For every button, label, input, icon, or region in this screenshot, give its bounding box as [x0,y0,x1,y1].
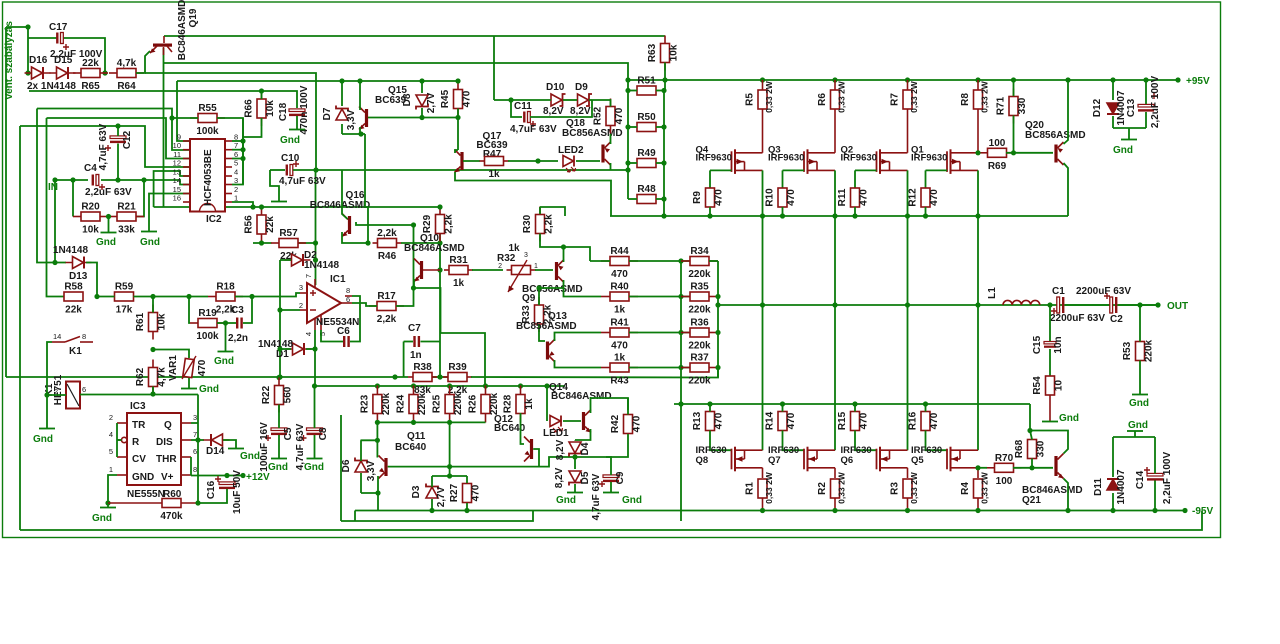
relay K1 HE751 [66,382,80,409]
svg-text:220k: 220k [688,376,711,387]
junction Q1 drain bus [975,213,980,218]
wire D3 R27 row [432,475,467,477]
resistor R20 [73,202,108,236]
wire Q21 emitter [1064,479,1069,511]
svg-text:R18: R18 [216,282,235,293]
wire D14 right gnd [223,440,236,448]
svg-text:Gnd: Gnd [140,237,160,248]
svg-text:D11: D11 [1093,478,1104,496]
svg-text:D14: D14 [206,446,225,457]
svg-text:470: 470 [786,412,797,429]
junction C11 top [508,97,513,102]
svg-text:R55: R55 [198,103,217,114]
junction R63 bus [662,77,667,82]
wire R68 bottom [1031,459,1033,468]
resistor R41 [601,318,638,352]
svg-text:R28: R28 [503,394,514,413]
diode D13 1N4148 [66,257,92,269]
wire C7 left [404,341,413,343]
svg-text:Q9: Q9 [522,293,536,304]
resistor R52 [593,99,626,134]
junction out bus 1 [832,302,837,307]
wire R63 to bus [664,63,666,91]
wire C18 bottom [296,116,298,129]
mosfet Q3 IRF9630 [804,149,835,174]
resistor R2 0,33 2W [817,479,840,498]
inductor L1 [1003,300,1040,305]
wire D13 to R58R59 mid [86,263,97,297]
svg-text:1: 1 [534,263,538,270]
zener D6 3,3V [355,458,367,473]
svg-text:NE555N: NE555N [127,489,165,500]
svg-text:220k: 220k [688,305,711,316]
junction +95 dots [1011,77,1016,82]
wire C1 C2 link [1065,304,1110,306]
svg-text:9: 9 [177,133,181,142]
capacitor C11 [523,112,536,128]
wire Q18 collector down [610,163,612,170]
svg-text:C12: C12 [122,130,133,149]
wire THR tie [190,457,192,476]
svg-text:220k: 220k [489,392,500,415]
svg-text:R8: R8 [960,93,971,106]
junction riser D3 row [447,473,452,478]
wire R61 top [152,297,154,313]
wire IC2 right pin connects [232,140,243,142]
wire R28 bottom to Q12 collector [521,413,525,444]
svg-text:R7: R7 [890,93,901,106]
wire R48-51 leads [628,90,637,92]
svg-text:4: 4 [109,430,113,439]
diode D11 1N4007 [1107,479,1119,490]
resistor R34 [681,246,718,280]
wire q19 base vertical [163,48,165,207]
wire R30 top [539,207,541,214]
zener D9 8,2V [578,94,593,106]
svg-text:470: 470 [786,189,797,206]
diode D1 1N4148 [286,343,312,355]
wire R70 to Q21 base [1013,467,1053,469]
junction right column [661,88,666,93]
wire Q17 collector [455,150,458,153]
junction D7 top [339,78,344,83]
resistor R71 [996,89,1029,124]
junction R18 left [186,294,191,299]
wire Q15 base row [368,117,458,119]
junction relay gnd [44,392,49,397]
svg-text:Gnd: Gnd [1113,145,1133,156]
svg-text:7: 7 [193,430,197,439]
svg-text:R27: R27 [449,483,460,502]
wire Q11 base row y466 [388,457,575,467]
svg-text:R38: R38 [413,362,432,373]
svg-text:R48: R48 [637,184,656,195]
wire Q3 drain to bus [834,170,836,216]
svg-text:330: 330 [1036,440,1047,457]
svg-text:Gnd: Gnd [199,384,219,395]
junction DIS node [195,437,200,442]
wire DIS vertical [197,395,199,504]
svg-text:C16: C16 [206,480,217,499]
svg-text:R57: R57 [279,228,298,239]
wire R39 right feedback line [471,368,718,378]
svg-text:R22: R22 [261,385,272,404]
svg-text:BC640: BC640 [395,442,427,453]
svg-text:IN: IN [48,182,58,193]
wire R17 right up [396,225,414,306]
wire Q10 base [423,269,440,271]
resistor R30 [522,207,555,242]
wire output vertical 0 [762,216,764,450]
wire Q14 collector to R42 [591,398,629,413]
ground C5 [271,458,287,460]
resistor R51 [637,76,656,96]
svg-text:V+: V+ [161,472,174,483]
wire y63 rail [164,63,629,199]
svg-text:R30: R30 [522,214,533,233]
svg-text:Gnd: Gnd [214,356,234,367]
diode D15 [50,67,76,79]
svg-text:BC856ASMD: BC856ASMD [1025,130,1086,141]
svg-text:560: 560 [283,386,294,403]
svg-text:OUT: OUT [1167,301,1188,312]
svg-text:470: 470 [614,107,625,124]
resistor R64 [109,58,144,92]
svg-text:3: 3 [299,283,303,292]
wire R2 bottom [834,498,836,511]
svg-text:Gnd: Gnd [1059,413,1079,424]
wire R18 row [153,296,208,298]
junction R61-R62 [150,347,155,352]
junction R20-R21 [106,214,111,219]
svg-text:R24: R24 [396,394,407,413]
transistor Q15 BC639 [359,107,368,130]
zener D8 2,7V [416,95,428,110]
svg-text:BC846ASMD: BC846ASMD [177,0,188,60]
zener D5 8,2V [569,471,581,486]
wire D2 left vertical [279,260,281,377]
resistor R8 0,33 2W [960,90,983,109]
wire R71 bottom [1013,116,1015,153]
junction R17 node [411,285,416,290]
wire Q5 source to R4 [977,468,979,478]
wire Q2 gate lead [855,169,877,171]
wire -95V stub left [354,511,356,522]
svg-text:4,7uF 63V: 4,7uF 63V [279,176,326,187]
resistor R18 [208,282,243,316]
junction R4 bus [975,508,980,513]
wire output vertical 2 [907,216,909,450]
resistor R40 [601,282,638,316]
resistor R10 470 [765,188,798,207]
wire R1 bottom [762,498,764,511]
resistor R12 470 [908,188,941,207]
svg-text:C6: C6 [337,326,350,337]
svg-text:R39: R39 [448,362,467,373]
capacitor C16 [215,476,235,489]
wire -95V bus [355,510,1185,512]
wire V+ row [191,475,243,477]
wire C10 left gnd [270,170,279,201]
junction R5 top [760,77,765,82]
svg-text:R68: R68 [1014,439,1025,458]
wire VAR1 bottom gnd [188,378,190,388]
svg-text:470: 470 [929,189,940,206]
wire Q7 source to R2 [834,468,836,478]
svg-text:R13: R13 [692,411,703,430]
junction -in [277,307,282,312]
svg-text:2,2k: 2,2k [544,214,555,234]
svg-text:470n 100V: 470n 100V [299,85,310,134]
svg-text:R42: R42 [610,414,621,433]
junction R7 top [905,77,910,82]
svg-text:470k: 470k [160,511,183,522]
wire IC3 left ties [116,423,118,457]
resistor R53 [1122,339,1155,362]
wire IC2 pin8 col [242,118,244,185]
svg-text:R4: R4 [960,482,971,495]
svg-text:-95V: -95V [1192,506,1213,517]
wire DIS to D14 [191,439,204,441]
capacitor C3 [236,318,238,329]
svg-text:22k: 22k [65,305,82,316]
junction +95 bus left [625,77,630,82]
resistor R25 [432,386,465,423]
wire D11 C14 top link [1113,436,1155,438]
svg-text:Q7: Q7 [768,455,781,466]
transistor Q13 BC856ASMD [546,339,555,362]
resistor R33 [521,297,554,332]
wire pin4 V- vertical [314,330,316,386]
svg-text:+12V: +12V [246,472,270,483]
wire ladder right [709,260,718,262]
resistor R59 [115,282,134,316]
resistor R60 [160,499,183,523]
junction C16 top [224,473,229,478]
wire C11 feed riser [493,36,495,100]
ground IC2 pin15 [141,231,157,233]
switch K1 [52,337,93,343]
svg-text:D7: D7 [322,107,333,120]
wire left vertical x37 to D13 [37,109,66,263]
svg-text:C3: C3 [231,305,244,316]
wire IN down to D13 [54,180,56,263]
svg-text:R46: R46 [378,251,397,262]
wire Q2 drain to bus [907,170,909,216]
svg-text:R49: R49 [637,148,656,159]
capacitor C17 [56,33,69,51]
svg-text:100k: 100k [196,126,219,137]
wire D10 D9 row [494,99,551,101]
wire R21 right riser [136,180,144,217]
transistor Q11 BC640 [379,456,388,479]
junction C10 right [313,167,318,172]
svg-text:C9: C9 [615,471,626,484]
wire y216 output bus upper [610,215,1068,217]
svg-text:R64: R64 [117,81,136,92]
wire R9 bottom [709,207,711,216]
junction R12 bus [923,213,928,218]
zener D3 2,7V [426,484,438,499]
wire C3 right up [243,297,252,324]
svg-text:R20: R20 [81,202,100,213]
junction +12V [240,473,245,478]
svg-text:12: 12 [173,159,181,168]
wire R46 right [401,242,440,244]
svg-text:Vent. szabályzás: Vent. szabályzás [4,21,15,100]
resistor R70 [987,453,1022,487]
resistor R38 [408,362,437,396]
svg-text:220k: 220k [417,392,428,415]
junction R58R59 mid [94,294,99,299]
wire gate bus to R68 [1029,404,1031,431]
svg-text:LED1: LED1 [543,428,569,439]
junction C4 right [141,177,146,182]
junction Q3 drain bus [832,213,837,218]
wire R23 col to Q11 collector [376,422,378,457]
svg-text:IRF9630: IRF9630 [768,153,804,164]
svg-text:R14: R14 [765,411,776,430]
svg-text:D12: D12 [1092,98,1103,117]
svg-text:Q: Q [164,420,172,431]
svg-text:+95V: +95V [1186,76,1210,87]
svg-text:Q6: Q6 [841,455,854,466]
wire vent node to C17 [6,27,28,73]
svg-text:Gnd: Gnd [1128,420,1148,431]
mosfet Q2 IRF9630 [877,149,908,174]
svg-text:R61: R61 [135,312,146,331]
svg-text:8: 8 [82,332,86,341]
svg-text:IC2: IC2 [206,214,222,225]
wire R12 bottom [925,207,927,216]
svg-text:10k: 10k [157,313,168,330]
svg-text:BC856ASMD: BC856ASMD [562,128,623,139]
junction R53 top [1137,302,1142,307]
varistor VAR1 [182,356,196,379]
ground IC3 [100,507,116,509]
svg-text:R3: R3 [890,482,901,495]
svg-text:R37: R37 [690,353,709,364]
svg-text:Q11: Q11 [407,431,426,442]
svg-text:470: 470 [859,412,870,429]
wire y207 long wire [154,206,440,208]
wire R3 bottom [907,498,909,511]
svg-text:220k: 220k [381,392,392,415]
wire OUT bus y305 [718,304,1158,306]
wire R47 right [508,160,558,162]
svg-text:HCF4053BE: HCF4053BE [203,149,214,206]
svg-text:470: 470 [197,359,208,376]
junction R19 C3 gnd [223,320,228,325]
resistor R42 [610,414,643,433]
wire Q6 source to R3 [907,468,909,478]
junction R3 bus [905,508,910,513]
svg-text:22k: 22k [82,58,99,69]
svg-text:D4: D4 [580,442,591,455]
wire R20R21 mid to gnd [108,217,110,233]
wire R19 to C3 [217,322,236,324]
junction D4 bottom [572,454,577,459]
svg-text:Q19: Q19 [188,8,199,27]
svg-text:1N4148: 1N4148 [304,260,339,271]
svg-text:6: 6 [193,447,197,456]
junction R11 bus [852,213,857,218]
resistor R9 470 [692,188,725,207]
junction clamp dots [375,420,380,425]
ground R53 [1132,394,1148,396]
ground C8 [307,458,323,460]
svg-text:0,33 2W: 0,33 2W [764,471,774,504]
junction D11 bus [1110,508,1115,513]
svg-text:470: 470 [714,412,725,429]
junction R1 bus [760,508,765,513]
junction C12 bottom [115,177,120,182]
resistor R35 [681,282,718,316]
ground D12 C13 [1121,139,1137,141]
ground D5 [567,492,583,494]
capacitor C13 [1138,93,1157,112]
wire R33 top lead [538,288,540,305]
mosfet Q6 IRF630 [877,447,908,472]
svg-text:2,7V: 2,7V [436,486,447,507]
wire R8 to source [977,109,979,153]
svg-text:VAR1: VAR1 [168,355,179,381]
capacitor C15 [1044,342,1056,344]
wire +95V top bus [628,79,1178,81]
junction Q16 collector node [411,222,416,227]
junction V- C8 [312,383,317,388]
svg-text:D13: D13 [69,271,88,282]
junction R29 top [437,204,442,209]
transistor Q19 BC846ASMD [150,36,172,55]
svg-text:D3: D3 [411,485,422,498]
wire R11 bottom [854,207,856,216]
wire y118 to IC2 pin11 [47,118,191,159]
wire Q1 drain to bus [977,170,979,216]
resistor R61 [135,305,168,340]
zener D10 8,2V [551,94,566,106]
resistor R62 [135,360,168,395]
resistor R39 [443,362,472,396]
junction -95V [1182,508,1187,513]
junction R46 right [437,240,442,245]
svg-text:C18: C18 [278,102,289,121]
junction R38 right [437,374,442,379]
svg-text:17k: 17k [116,305,133,316]
op-amp IC1 NE5534N [300,279,352,330]
svg-text:R21: R21 [117,202,136,213]
junction R33 top [536,285,541,290]
resistor R45 [440,82,473,117]
junction C15 top [1047,302,1052,307]
resistor R37 [681,353,718,387]
junction D13 anode [52,260,57,265]
svg-text:220k: 220k [1144,339,1155,362]
svg-text:0,33 2W: 0,33 2W [764,80,774,113]
svg-text:L1: L1 [987,287,998,299]
svg-text:LED2: LED2 [558,145,584,156]
svg-text:R69: R69 [988,161,1007,172]
junction R59 right [150,294,155,299]
svg-text:Gnd: Gnd [622,495,642,506]
svg-text:3,3V: 3,3V [346,109,357,130]
junction D8 top [419,78,424,83]
wire y530 bottom long line [20,511,1202,530]
svg-text:R34: R34 [690,246,709,257]
junction D1 left [277,346,282,351]
svg-text:330: 330 [1017,97,1028,114]
wire D12 C13 gnd link [1113,127,1146,129]
